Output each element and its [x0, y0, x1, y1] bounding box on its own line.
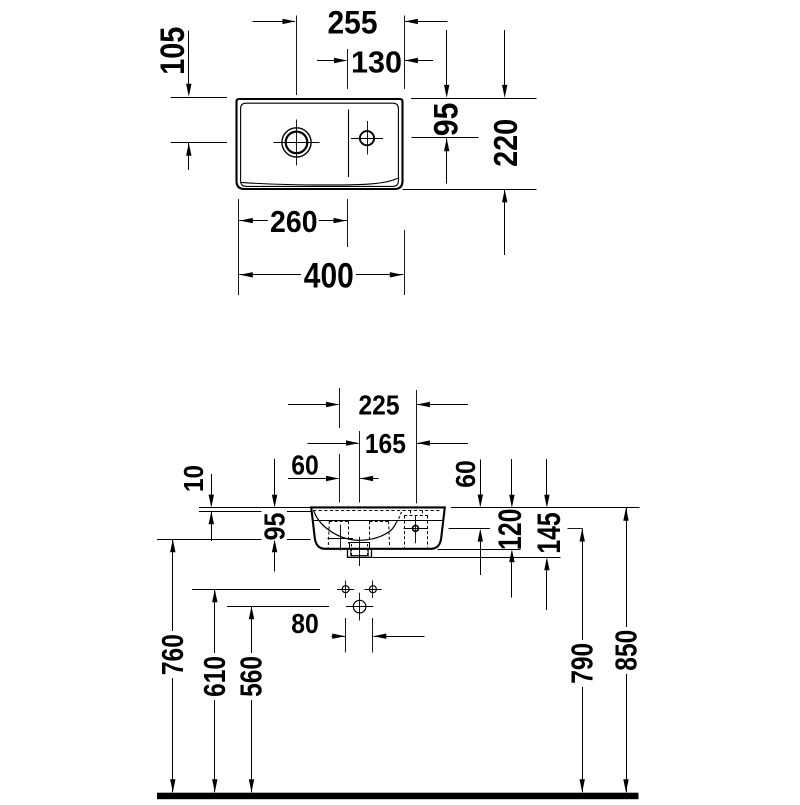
svg-text:220: 220	[487, 119, 524, 167]
dim 105: lower arrow	[186, 143, 191, 156]
ext line x359.5 (drain axis)	[359, 431, 361, 503]
dim 120: lower arrow	[509, 549, 514, 562]
ref line y507.6 right	[451, 507, 640, 509]
dim 60L: right arrow	[360, 476, 373, 481]
front view: tap hole centerline vertical	[415, 515, 417, 543]
front view: drain centerline	[359, 537, 361, 566]
top view: tap hole circle	[360, 131, 374, 145]
dim 760: line upper	[172, 539, 174, 631]
dim 560: line lower	[251, 700, 253, 792]
ext line x339.5 lower	[339, 454, 341, 503]
dim 255: line left tail	[253, 21, 295, 23]
water supply hole	[353, 600, 366, 613]
dim 400: left arrow	[240, 272, 253, 277]
dim 165: line right tail	[417, 443, 468, 445]
dim 220: lower tail	[504, 189, 506, 255]
top view: basin outer outline	[237, 99, 403, 189]
dim 220: upper tail	[504, 30, 506, 86]
front view: hidden tap platform top	[404, 515, 428, 517]
svg-text:790: 790	[564, 643, 599, 684]
dim 80: left arrow	[332, 634, 345, 639]
dim 850: line lower	[626, 674, 628, 792]
dim 255: right arrow	[405, 19, 418, 24]
dim 95B: upper tail	[274, 459, 276, 496]
ref line y589 left	[192, 589, 320, 591]
front view: drain fitting inner	[351, 549, 368, 556]
dim 145: lower arrow	[544, 557, 549, 570]
wall fixing hole left crosshair h	[337, 589, 354, 591]
svg-text:10: 10	[178, 465, 209, 492]
dim 60L: left arrow	[326, 476, 339, 481]
dim 80: ext line right	[372, 618, 374, 653]
left ref line rim lower a	[199, 511, 262, 513]
svg-text:60: 60	[450, 460, 481, 488]
dim 95 top: upper tail	[446, 30, 448, 86]
dim 255: ext line at right edge	[404, 16, 406, 90]
svg-text:105: 105	[154, 27, 192, 75]
floor line	[157, 793, 639, 800]
front view: deck front edge	[312, 520, 443, 522]
left ref line rim lower b	[287, 511, 312, 513]
dim 60R: upper tail	[480, 460, 482, 496]
dim 400: right arrow	[390, 272, 403, 277]
front view: hidden drain pipe left (dashed)	[351, 544, 353, 556]
front view: basin outline	[311, 507, 445, 548]
dim 220: ref line bottom edge right	[403, 189, 537, 191]
dim 60L: line right tail	[360, 478, 378, 480]
top view: tap hole centerline vertical	[367, 121, 369, 155]
dim 790: line upper	[582, 529, 584, 641]
dim 80: line left tail	[332, 636, 345, 638]
dim 130: left arrow	[334, 58, 347, 63]
dim 850: line upper	[626, 508, 628, 627]
dim 220: ref line top edge right	[411, 98, 537, 100]
top view: deck divider line	[348, 110, 350, 178]
dim 400: line left part	[239, 274, 301, 276]
dim 130: ext line	[347, 49, 349, 89]
svg-text:80: 80	[291, 608, 319, 639]
ref line y557.2 right	[372, 557, 560, 559]
dim 220: ref line tap center right	[412, 137, 479, 139]
dim 105: lower tail	[188, 143, 190, 170]
dim 220: upper arrow	[502, 85, 507, 98]
dim 10: lower arrow	[209, 511, 214, 524]
ref line y539 left b	[287, 539, 311, 541]
dim 560: lower arrow	[249, 779, 254, 792]
dim 130: line right tail	[405, 60, 433, 62]
svg-text:850: 850	[608, 630, 643, 671]
svg-text:225: 225	[359, 389, 400, 420]
dim 760: lower arrow	[170, 779, 175, 792]
dim 120: upper arrow	[509, 495, 514, 508]
dim 260: line right part	[319, 220, 347, 222]
dim 790: lower arrow	[580, 779, 585, 792]
dim 105: ref line drain center	[171, 142, 228, 144]
dim 260: right arrow	[334, 218, 347, 223]
dim 60L: line left tail	[288, 478, 338, 480]
dim 255: left arrow	[283, 19, 296, 24]
svg-text:760: 760	[155, 634, 190, 675]
dim 165: line left tail	[308, 443, 359, 445]
dim 850: lower arrow	[623, 779, 628, 792]
dim 95 top: upper arrow	[444, 85, 449, 98]
water supply hole crosshair v	[359, 593, 361, 621]
dim 130: right arrow	[405, 58, 418, 63]
front view: tap hole circle	[413, 526, 419, 532]
dim 255: ext line at drain center	[296, 16, 298, 96]
front view: drain recess left	[349, 542, 351, 549]
dim 95B: lower arrow	[272, 539, 277, 552]
dim 10: upper tail	[211, 474, 213, 495]
front view: fixing hole crosshair horizontal	[328, 538, 354, 540]
dim 400: line right part	[356, 274, 403, 276]
dim 260: line left part	[239, 220, 268, 222]
svg-text:165: 165	[365, 428, 406, 459]
front view: hidden tap platform stub left	[410, 511, 412, 516]
dim 610: lower arrow	[212, 779, 217, 792]
dim 120: upper tail	[511, 459, 513, 495]
dim 610: line lower	[214, 700, 216, 792]
dim 130: line left tail	[317, 60, 346, 62]
front view: hidden tap platform right side	[427, 516, 429, 548]
wall fixing hole right crosshair v	[372, 581, 374, 599]
wall fixing hole left crosshair v	[345, 581, 347, 599]
ref line y528.4 right b	[568, 528, 583, 530]
dim 560: line upper	[251, 606, 253, 653]
front view: hidden drain pipe right (dashed)	[367, 544, 369, 556]
svg-text:60: 60	[291, 449, 319, 480]
dim 560: upper arrow	[249, 606, 254, 619]
dim 760: upper arrow	[170, 539, 175, 552]
dim 165: left arrow	[346, 440, 359, 445]
front view: hidden pocket 2 top	[370, 521, 389, 523]
dim 610: upper arrow	[212, 589, 217, 602]
dim 105: upper tail	[188, 31, 190, 85]
dim 400: ext line right	[404, 230, 406, 295]
front view: drain fitting outer	[348, 549, 372, 558]
front view: drain recess right	[369, 542, 371, 549]
front view: hidden tap platform stub right	[422, 511, 424, 516]
top view: drain hole centerline vertical	[296, 120, 298, 166]
wall fixing hole right	[369, 586, 376, 593]
front view: tap hole centerline horizontal	[404, 528, 428, 530]
dim 220: lower arrow	[502, 189, 507, 202]
ref line y539 left a	[157, 539, 262, 541]
dim 95 top: lower arrow	[444, 138, 449, 151]
svg-text:145: 145	[531, 512, 567, 553]
dim 145: upper tail	[546, 459, 548, 495]
top view: drain hole outer circle	[282, 128, 311, 157]
front view: hidden pocket 1 right side	[348, 521, 350, 543]
svg-text:95: 95	[260, 513, 292, 541]
dim 850: upper arrow	[623, 508, 628, 521]
dim 255: line right tail	[405, 21, 448, 23]
front view: bowl silhouette hidden end (dashed)	[396, 512, 401, 523]
svg-text:400: 400	[304, 257, 354, 296]
svg-text:130: 130	[351, 44, 402, 79]
svg-text:255: 255	[328, 5, 378, 41]
front view: hidden rim lower edge (dashed)	[313, 510, 440, 512]
ref line y549.3 right	[438, 549, 521, 551]
svg-text:610: 610	[197, 656, 232, 697]
front view: hidden pocket 1 top	[329, 521, 348, 523]
dim 105: ref line top edge	[171, 97, 228, 99]
front view: hidden pocket 1 left side	[328, 521, 329, 548]
top view: tap hole centerline horizontal	[351, 138, 383, 140]
wall fixing hole right crosshair h	[365, 589, 382, 591]
dim 225: line left tail	[288, 404, 338, 406]
top view: drain hole inner circle	[286, 132, 308, 154]
dim 95B: upper arrow	[272, 495, 277, 508]
svg-text:560: 560	[234, 656, 269, 697]
dim 610: line upper	[214, 589, 216, 653]
water supply hole crosshair h	[346, 606, 373, 608]
front view: drain recess top	[350, 542, 369, 544]
dim 95 top: lower tail	[446, 138, 448, 183]
dim 145: upper arrow	[544, 495, 549, 508]
svg-text:260: 260	[270, 204, 318, 239]
left ref line top edge	[199, 507, 311, 509]
dim 225: line right tail	[417, 404, 468, 406]
dim 120: lower tail	[511, 562, 513, 597]
dim 760: line lower	[172, 678, 174, 792]
dim 165: right arrow	[417, 440, 430, 445]
top view: basin inner rim outline	[241, 103, 399, 186]
front view: bowl silhouette curve	[314, 511, 396, 540]
dim 80: line right tail	[374, 636, 425, 638]
dim 790: line lower	[582, 687, 584, 792]
front view: fixing hole crosshair vertical	[340, 525, 342, 551]
top view: drain hole centerline horizontal	[274, 142, 320, 144]
dim 145: lower tail	[546, 570, 548, 610]
wall fixing hole left	[342, 586, 349, 593]
dim 225: left arrow	[326, 402, 339, 407]
dim 10: upper arrow	[209, 495, 214, 508]
dim 60R: lower arrow	[478, 529, 483, 542]
ext line x339.5 upper	[339, 388, 341, 428]
ext line x416.4 (tap axis)	[416, 390, 418, 503]
dim 95B: lower tail	[274, 552, 276, 571]
dim 60R: lower tail	[480, 542, 482, 575]
top view: bowl bottom curve	[241, 178, 397, 185]
dim 80: ext line left	[345, 618, 347, 653]
dim 10: lower tail	[211, 511, 213, 541]
front view: hidden tap platform left side	[404, 516, 406, 549]
front view: hidden pocket 2 left side	[369, 521, 371, 544]
svg-text:120: 120	[492, 509, 528, 550]
dim 260: left arrow	[240, 218, 253, 223]
dim 225: right arrow	[417, 402, 430, 407]
dim 60R: upper arrow	[478, 495, 483, 508]
svg-text:95: 95	[428, 103, 466, 136]
dim 105: upper arrow	[186, 84, 191, 97]
front view: hidden pocket 2 right side	[389, 521, 390, 547]
dim 260: ext line right	[347, 199, 349, 247]
dim 790: upper arrow	[580, 529, 585, 542]
dim 260: ext line left	[238, 199, 240, 295]
ref line y606 left	[227, 606, 329, 608]
dim 80: right arrow	[373, 634, 386, 639]
ref line y528.4 right a	[449, 528, 491, 530]
